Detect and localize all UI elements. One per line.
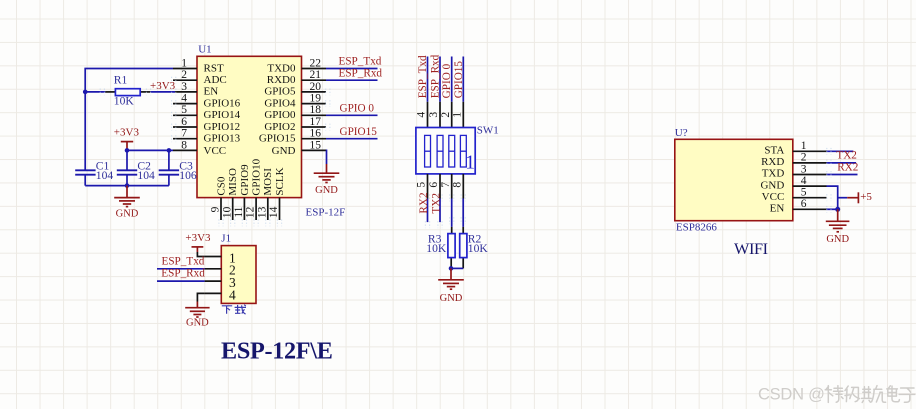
svg-text:GND: GND <box>826 234 849 245</box>
wire U? pin3 <box>827 174 858 176</box>
svg-text:CS0: CS0 <box>215 176 227 195</box>
svg-text:16: 16 <box>310 128 322 140</box>
U1 pin 8 VCC <box>173 139 226 157</box>
svg-text:TXD: TXD <box>762 168 785 180</box>
svg-text:7: 7 <box>181 128 187 140</box>
U1 pin 19 GPIO4 <box>264 93 326 110</box>
svg-text:ESP-12F\E: ESP-12F\E <box>221 337 333 364</box>
svg-text:+3V3: +3V3 <box>150 80 176 92</box>
wire TX2 <box>439 199 441 223</box>
capacitor C3 <box>159 170 179 185</box>
svg-text:4: 4 <box>181 93 187 105</box>
svg-text:GPIO2: GPIO2 <box>264 121 295 133</box>
wire SW pin7 to R3 <box>451 199 453 227</box>
svg-text:ESP_Rxd: ESP_Rxd <box>339 67 383 79</box>
junction at EN/GND <box>835 207 840 212</box>
svg-text:WIFI: WIFI <box>734 239 768 258</box>
power port +3V3 above C2 <box>114 126 140 150</box>
watermark CSDN <box>758 385 915 403</box>
svg-text:GPIO13: GPIO13 <box>204 133 241 145</box>
U? pin 1 STA <box>764 140 826 156</box>
svg-text:9: 9 <box>210 206 222 212</box>
SW1 pin 1 <box>452 102 464 128</box>
J1 pin 4 <box>205 287 236 302</box>
J1 pin 1 <box>205 250 236 265</box>
SW1 pin 8 <box>452 174 464 199</box>
wire R1 left <box>85 91 105 93</box>
SW1 pin 4 <box>416 102 428 128</box>
svg-text:2: 2 <box>440 112 452 118</box>
wire ESP_Txd to J1 <box>157 268 205 270</box>
wire U? pin6 <box>827 208 838 210</box>
U1 pin 20 GPIO5 <box>264 81 326 98</box>
svg-text:GPIO15: GPIO15 <box>259 133 296 145</box>
wire ESP_Txd (pin22) <box>326 68 378 70</box>
wire pin15 to ground <box>325 150 328 164</box>
svg-text:RX2: RX2 <box>418 192 430 213</box>
svg-text:8: 8 <box>181 139 187 151</box>
svg-text:5: 5 <box>181 104 187 116</box>
junction at C2 bottom <box>125 183 130 188</box>
wire RX2 at U? <box>827 162 857 164</box>
svg-text:+3V3: +3V3 <box>185 232 211 244</box>
svg-text:MOSI: MOSI <box>262 168 274 196</box>
svg-text:GND: GND <box>116 208 139 219</box>
U1 pin 1 RST <box>173 57 224 74</box>
svg-text:GPIO12: GPIO12 <box>204 121 241 133</box>
svg-text:GND: GND <box>440 293 463 304</box>
junction at R3 bottom <box>449 266 454 271</box>
U1 pin 16 GPIO15 <box>259 128 326 145</box>
power port +3V3 at J1 <box>185 232 211 252</box>
svg-text:GPIO 0: GPIO 0 <box>340 102 375 114</box>
switch SW1 body <box>416 128 475 174</box>
U1 pin 17 GPIO2 <box>264 116 326 133</box>
SW1 pin 3 <box>428 102 440 128</box>
svg-text:6: 6 <box>428 182 440 188</box>
junction at C3 top <box>167 148 172 153</box>
svg-text:3: 3 <box>428 112 440 118</box>
svg-text:VCC: VCC <box>204 145 227 157</box>
wire RX2 <box>427 199 429 223</box>
svg-text:2: 2 <box>801 152 807 164</box>
no-ERC markers <box>100 77 831 228</box>
U1 pin 13 MOSI <box>256 168 274 220</box>
wire U? pin5 VCC <box>838 197 848 199</box>
svg-text:10: 10 <box>221 206 233 218</box>
SW1 pin 2 <box>440 102 452 128</box>
wire SW pin4 net ESP_Txd <box>427 57 429 102</box>
svg-text:10K: 10K <box>468 242 489 255</box>
svg-text:6: 6 <box>801 198 807 210</box>
svg-text:RST: RST <box>204 62 224 74</box>
ground under C2 <box>114 186 140 220</box>
junction at R1 left <box>83 90 88 95</box>
IC U? body (ESP8266 WIFI) <box>675 139 793 220</box>
U1 pin 15 GND <box>272 139 326 157</box>
ground at U? <box>826 209 850 245</box>
svg-text:11: 11 <box>233 206 245 217</box>
svg-text:J1: J1 <box>221 232 231 244</box>
capacitor C1 <box>75 170 95 185</box>
U1 pin 22 TXD0 <box>267 57 326 74</box>
wire ESP_Rxd to J1 <box>157 280 205 282</box>
svg-text:GPIO5: GPIO5 <box>264 86 296 98</box>
svg-text:104: 104 <box>96 169 114 182</box>
svg-text:ESP_Txd: ESP_Txd <box>162 255 205 267</box>
svg-text:GPIO14: GPIO14 <box>204 109 241 121</box>
ground at pin15 <box>314 164 340 196</box>
svg-text:3: 3 <box>801 163 807 175</box>
svg-text:SCLK: SCLK <box>274 167 286 195</box>
svg-text:5: 5 <box>801 187 807 199</box>
svg-text:EN: EN <box>770 203 785 215</box>
ground under R3 <box>438 268 464 304</box>
svg-text:6: 6 <box>181 116 187 128</box>
J1 pin 2 <box>205 263 236 278</box>
U1 pin 5 GPIO14 <box>173 104 241 121</box>
IC U1 body (ESP-12F) <box>197 56 302 197</box>
svg-text:22: 22 <box>310 57 322 69</box>
svg-text:14: 14 <box>268 206 280 218</box>
wire VCC rail to pin 8 <box>127 149 173 151</box>
U1 pin 21 RXD0 <box>267 69 326 86</box>
wire TX2 at U? <box>827 150 854 152</box>
svg-text:GND: GND <box>760 179 784 191</box>
svg-text:10K: 10K <box>426 242 447 255</box>
J1 pin 3 <box>205 275 236 290</box>
wire ESP_Rxd (pin21) <box>326 79 378 81</box>
wire ground rail under caps <box>85 185 169 187</box>
svg-text:GND: GND <box>315 185 338 196</box>
svg-text:U1: U1 <box>198 44 211 56</box>
svg-text:EN: EN <box>204 86 219 98</box>
svg-text:12: 12 <box>245 206 257 218</box>
U1 pin 14 SCLK <box>268 167 286 220</box>
svg-text:2: 2 <box>181 69 187 81</box>
svg-text:GPIO16: GPIO16 <box>204 97 241 109</box>
capacitor C2 <box>117 170 137 185</box>
wire +3V3 to J1 pin1 <box>197 252 204 257</box>
ground at J1 <box>185 302 209 329</box>
resistor R2 <box>460 227 467 269</box>
svg-text:GPIO0: GPIO0 <box>264 109 296 121</box>
svg-text:20: 20 <box>310 81 322 93</box>
svg-text:GPIO 0: GPIO 0 <box>441 63 453 98</box>
svg-text:ADC: ADC <box>204 74 227 86</box>
svg-text:GPIO10: GPIO10 <box>251 158 263 195</box>
svg-text:GPIO15: GPIO15 <box>340 126 378 138</box>
svg-text:ESP8266: ESP8266 <box>676 222 717 234</box>
svg-text:15: 15 <box>310 139 322 151</box>
wire C2 top lead <box>126 150 128 170</box>
wire GPIO 0 (pin18) <box>326 114 378 116</box>
U? pin 4 GND <box>760 175 826 191</box>
U1 pin 2 ADC <box>173 69 227 86</box>
svg-text:MISO: MISO <box>227 168 239 196</box>
svg-text:18: 18 <box>310 104 322 116</box>
svg-text:GPIO9: GPIO9 <box>239 164 251 196</box>
resistor R1 <box>105 89 150 96</box>
wire SW pin3 net ESP_Rxd <box>439 57 441 102</box>
svg-text:U?: U? <box>675 127 688 139</box>
U1 pin 10 MISO <box>221 168 239 220</box>
U? pin 5 VCC <box>762 187 827 203</box>
wire SW pin1 net GPIO15 <box>462 57 464 102</box>
connector J1 body <box>221 246 256 304</box>
svg-text:TXD0: TXD0 <box>267 62 296 74</box>
U? pin 6 EN <box>770 198 827 214</box>
wire SW pin8 to R2 <box>462 199 464 227</box>
svg-text:ESP_Rxd: ESP_Rxd <box>430 54 442 98</box>
svg-text:GND: GND <box>186 317 209 328</box>
svg-text:104: 104 <box>137 169 155 182</box>
svg-text:ESP-12F: ESP-12F <box>306 207 346 219</box>
label 下载 (download) <box>222 305 246 314</box>
SW1 pin 7 <box>440 174 452 199</box>
svg-text:TX2: TX2 <box>836 150 857 162</box>
svg-text:RXD: RXD <box>761 156 784 168</box>
svg-text:8: 8 <box>452 182 464 188</box>
svg-text:RXD0: RXD0 <box>267 74 296 86</box>
power port +5 <box>847 191 872 204</box>
svg-text:GPIO15: GPIO15 <box>453 61 465 99</box>
svg-text:STA: STA <box>764 145 784 157</box>
wire SW pin2 net GPIO 0 <box>451 57 453 102</box>
svg-text:GND: GND <box>272 145 296 157</box>
U1 pin 3 EN <box>175 81 218 98</box>
svg-text:1: 1 <box>465 153 475 174</box>
U1 pin 7 GPIO13 <box>173 128 241 145</box>
svg-text:TX2: TX2 <box>431 193 443 214</box>
svg-text:4: 4 <box>801 175 807 187</box>
svg-text:+5: +5 <box>860 191 872 203</box>
svg-text:RX2: RX2 <box>837 162 858 174</box>
svg-text:1: 1 <box>801 140 807 152</box>
wire J1 pin4 to ground <box>197 293 204 301</box>
wire U? pin4 to EN junction <box>827 186 838 209</box>
svg-text:1: 1 <box>181 57 187 69</box>
resistor R3 <box>448 227 455 269</box>
svg-text:10K: 10K <box>114 95 135 108</box>
svg-text:4: 4 <box>229 287 236 302</box>
U? pin 2 RXD <box>761 152 826 168</box>
U1 pin 12 GPIO10 <box>245 158 263 220</box>
U1 pin 18 GPIO0 <box>264 104 326 121</box>
svg-text:5: 5 <box>416 182 428 188</box>
svg-text:17: 17 <box>310 116 322 128</box>
svg-text:21: 21 <box>310 69 322 81</box>
svg-text:GPIO4: GPIO4 <box>264 97 296 109</box>
wire RST net (pin1 left + down to C1) <box>85 69 173 171</box>
U1 pin 4 GPIO16 <box>173 93 241 110</box>
U? pin 3 TXD <box>762 163 827 179</box>
svg-text:106: 106 <box>179 169 197 182</box>
wire C3 top lead <box>168 150 170 170</box>
svg-text:1: 1 <box>452 112 464 118</box>
svg-text:+3V3: +3V3 <box>114 126 140 138</box>
svg-text:CSDN @: CSDN @ <box>758 385 825 403</box>
U1 pin 11 GPIO9 <box>233 164 251 220</box>
wire R3/R2 bottoms <box>451 267 463 269</box>
svg-text:3: 3 <box>181 81 187 93</box>
U1 pin 9 CS0 <box>210 176 228 220</box>
svg-text:VCC: VCC <box>762 191 785 203</box>
junction at C2 top <box>125 148 130 153</box>
wire R1 to EN pin <box>150 91 175 93</box>
svg-text:SW1: SW1 <box>477 124 499 136</box>
wire GPIO15 (pin16) <box>326 138 378 140</box>
svg-text:R1: R1 <box>114 74 128 87</box>
svg-text:4: 4 <box>416 112 428 118</box>
svg-text:13: 13 <box>256 206 268 218</box>
svg-text:7: 7 <box>440 182 452 188</box>
SW1 pin 6 <box>428 174 440 199</box>
svg-text:ESP_Txd: ESP_Txd <box>417 55 429 98</box>
svg-text:ESP_Rxd: ESP_Rxd <box>161 268 205 280</box>
svg-text:19: 19 <box>310 93 322 105</box>
SW1 pin 5 <box>416 174 428 199</box>
U1 pin 6 GPIO12 <box>173 116 240 133</box>
svg-text:ESP_Txd: ESP_Txd <box>339 56 382 68</box>
